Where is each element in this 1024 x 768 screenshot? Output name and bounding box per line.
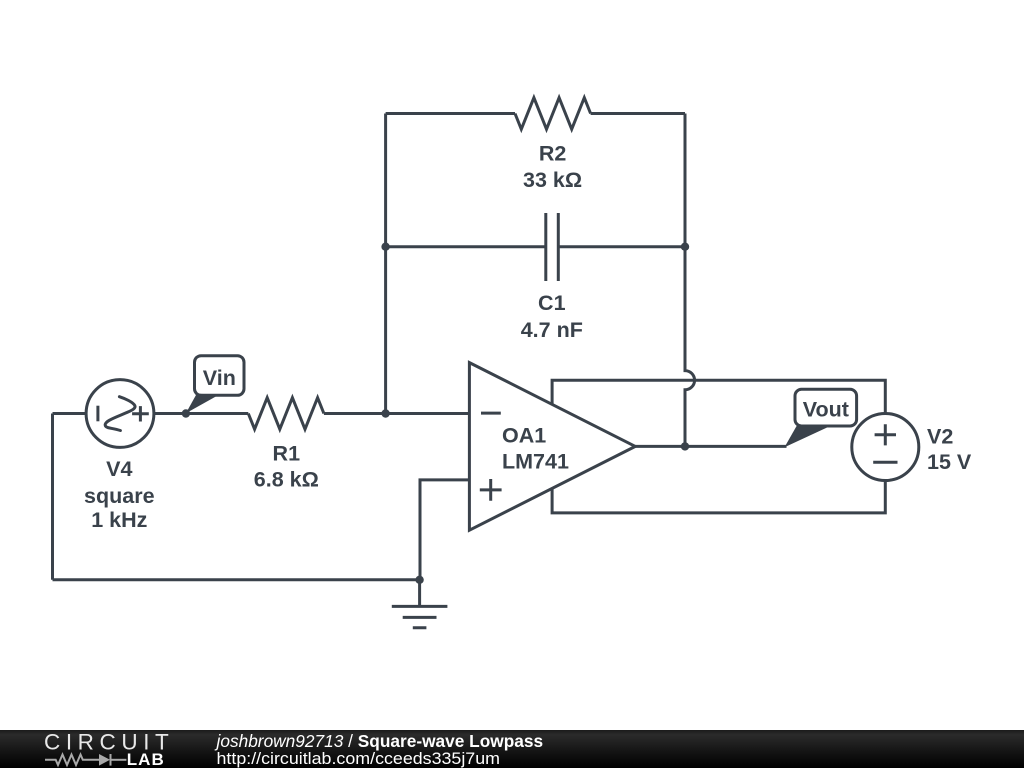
svg-text:R1: R1: [273, 442, 301, 466]
svg-text:LAB: LAB: [127, 750, 165, 768]
wire: V+ power rail: [552, 380, 885, 413]
svg-text:33 kΩ: 33 kΩ: [523, 168, 582, 192]
svg-text:6.8 kΩ: 6.8 kΩ: [254, 468, 319, 492]
resistor R2: [515, 98, 591, 130]
R1 value label: [254, 442, 319, 492]
R2 value label: [523, 141, 582, 192]
svg-text:LM741: LM741: [502, 450, 569, 474]
footer bar: [0, 729, 1024, 768]
svg-text:Vout: Vout: [803, 398, 849, 422]
V4 plus terminal mark: [132, 406, 149, 421]
OA1 non-inverting pin mark: [480, 479, 502, 501]
svg-text:C1: C1: [538, 291, 566, 315]
V2 label: [927, 424, 972, 473]
OA1 inverting pin mark: [481, 412, 501, 415]
op-amp OA1 triangle: [469, 363, 635, 531]
junction dot: feedback right / C1: [681, 243, 689, 251]
svg-text:Vin: Vin: [203, 366, 236, 390]
node Vin flag: [186, 356, 244, 414]
junction dot: node Vin: [182, 409, 190, 417]
wire: top to R2: [386, 112, 515, 115]
svg-text:http://circuitlab.com/cceeds33: http://circuitlab.com/cceeds335j7um: [217, 749, 501, 768]
svg-text:15 V: 15 V: [927, 450, 972, 474]
svg-text:V4: V4: [106, 457, 132, 481]
resistor R1: [248, 398, 324, 430]
junction dot: output / feedback: [681, 442, 689, 450]
wire: feedback right vertical with hop over V+ rail: [685, 114, 695, 447]
V2 plus mark: [875, 424, 896, 445]
wire: C1 left lead: [386, 245, 546, 248]
wire: R2 to right vertical: [591, 112, 685, 115]
wire: non-inverting input to ground: [420, 480, 469, 580]
capacitor C1: [546, 213, 559, 281]
V4 square-wave glyph: [105, 397, 135, 431]
voltage source V4 circle: [86, 380, 154, 448]
wire: R1 to op-amp inverting input: [324, 412, 470, 415]
V4 minus terminal mark: [96, 406, 99, 422]
V2 minus mark: [873, 461, 897, 464]
CircuitLab logo resistor-diode glyph: [45, 754, 126, 766]
junction dot: R1 / feedback node: [381, 409, 389, 417]
V4 label: [84, 457, 155, 532]
svg-text:V2: V2: [927, 424, 953, 448]
wire: left rail down: [51, 414, 54, 580]
wire: vertical feedback left: [384, 114, 387, 414]
svg-text:R2: R2: [539, 141, 567, 165]
wire: bottom rail to ground junction: [53, 578, 420, 581]
node Vout flag: [785, 389, 857, 447]
wire: op-amp output: [635, 445, 786, 448]
wire: V4 right lead to node Vin: [154, 412, 248, 415]
svg-text:4.7 nF: 4.7 nF: [521, 318, 583, 342]
svg-text:1 kHz: 1 kHz: [91, 508, 147, 532]
wire: C1 right lead: [558, 245, 685, 248]
wire: V- power rail: [552, 481, 885, 513]
svg-text:OA1: OA1: [502, 424, 546, 448]
C1 value label: [521, 291, 583, 342]
svg-text:square: square: [84, 484, 155, 508]
ground symbol: [392, 580, 448, 628]
wire: V4 left lead to left rail: [53, 412, 87, 415]
junction dot: ground node: [415, 576, 423, 584]
voltage source V2 circle: [852, 414, 919, 481]
OA1 label: [502, 424, 569, 474]
junction dot: feedback left / C1: [381, 243, 389, 251]
